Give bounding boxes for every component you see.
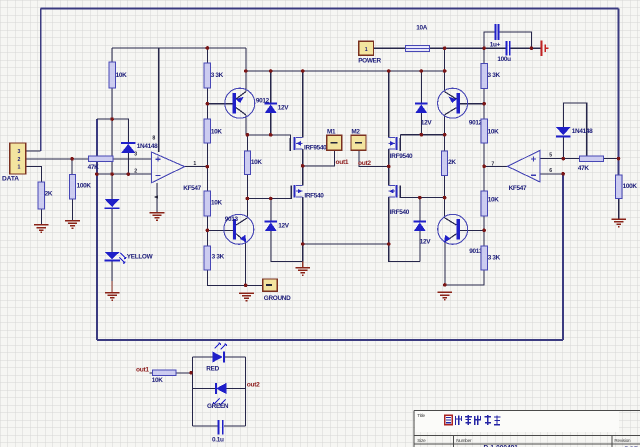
svg-text:12V: 12V [421,120,433,127]
wire gate rail lower right riser [399,186,401,198]
wire diode D7 bottom lead [562,137,564,158]
wire 33K Q3 bottom to gnd rail [207,270,262,285]
transistor Q2 9012 right [438,88,468,118]
wire jog node to loop [97,118,112,120]
capacitor C1 1u [495,24,500,40]
node 33K top rail1 [206,46,210,50]
capacitor C3 0.1u [218,420,224,435]
wire feedback loop left vertical [96,119,98,340]
node pin2 row diode anode [127,172,131,176]
wire gate rail lower left [247,186,291,199]
resistor R 10K chain upper [204,119,210,143]
wire 33K right top lead [483,48,485,64]
svg-text:100K: 100K [77,183,92,190]
wire 100K bottom to ground [72,199,74,221]
node zener D6 rail [418,196,422,200]
resistor R 10K chain lower [204,191,210,216]
svg-text:0.1u: 0.1u [212,437,224,444]
svg-text:POWER: POWER [358,58,381,65]
connector M2 [351,135,366,150]
ground Q4 emitter [438,292,453,300]
node FET drain bus left [301,69,305,73]
ground under 2K [34,225,49,233]
svg-text:3: 3 [134,151,137,157]
svg-text:out2: out2 [247,381,260,388]
wire zener D4 top lead [270,199,272,221]
wire left FET mid out1 node [302,149,304,185]
zener D5 12V upper right [415,102,427,113]
svg-text:10K: 10K [152,377,164,384]
transistor Q4 9013 right [438,214,468,244]
wire DATA pin2 to 47K [26,158,89,160]
svg-text:10K: 10K [488,129,500,136]
wire M2 pin to out2 node [359,150,389,166]
wire feedback loop right vertical to pin6 [562,174,564,340]
svg-text:100u: 100u [497,56,511,63]
wire 10K collector leads [246,135,248,199]
wire left FET source to gnd [302,197,304,261]
svg-text:10A: 10A [416,25,428,32]
wire zener D4 bottom to gnd corner [271,230,303,261]
wire LED block left vertical [191,357,193,426]
node Q2 base [482,102,486,106]
wire left chain 33K to 10K [206,88,208,119]
LED D9 RED [212,343,226,363]
svg-text:YELLOW: YELLOW [127,254,154,261]
wire LED yellow to ground [111,261,113,282]
svg-text:10K: 10K [211,199,223,206]
connector J1 DATA [10,143,26,174]
svg-text:GREEN: GREEN [207,403,229,410]
wire source link across [303,243,389,245]
svg-text:M1: M1 [327,128,336,135]
wire DATA pin1 to 2K [26,166,42,182]
wire left chain 10K to Q3 base node [206,216,208,246]
svg-text:12V: 12V [278,104,290,111]
wire right chain 10K to 33K [483,216,485,246]
svg-text:9013: 9013 [225,216,239,223]
ground Q3 emitter [239,293,254,301]
svg-text:47K: 47K [578,165,590,172]
svg-text:IRF540: IRF540 [390,209,410,216]
svg-text:10K: 10K [211,129,223,136]
node out1 [301,164,305,168]
node Q1 emitter bus [244,69,248,73]
resistor R 33K right bottom [481,246,487,270]
node zener D3 bus [269,69,273,73]
wire zener D5 bottom lead [420,112,422,135]
mosfet M IRF540 right [389,185,401,198]
wire right FET source down [389,197,420,261]
node source link right [387,242,391,246]
wire opamp U2 output [484,165,508,167]
svg-text:2K: 2K [448,159,456,166]
wire right FET drain from bus [388,71,390,138]
svg-text:10K: 10K [488,197,500,204]
title text CJK drawn as glyph shapes [445,415,501,425]
wire Q4 base [460,229,484,231]
wire fuse to battery [430,47,506,49]
wire opamp U1 pin8 to rail1 [158,48,160,152]
resistor R 10K collector [244,151,250,175]
svg-text:3: 3 [18,149,21,155]
wire zener D6 top lead [419,198,421,221]
svg-text:IRF540: IRF540 [304,192,324,199]
node pin2 row diode chain [110,172,114,176]
node zener D3 rail [269,133,273,137]
node diode D7 pin5 [562,157,566,161]
node loop pin2 corner [95,172,99,176]
resistor R 33K q3 [204,246,210,270]
wire opamp U2 pin6 row [540,173,563,175]
svg-text:2: 2 [18,157,21,163]
wire cap 100u right lead [511,47,541,49]
node Q3 base [206,229,210,233]
node Q4 base [482,229,486,233]
wire Q4 emitter down to ground [444,242,446,285]
wire Q1 emitter up [245,71,247,92]
wire right chain 33K to 10K [483,89,485,119]
wire zener D6 bottom lead [419,230,421,261]
wire 33K Q1 top lead [206,48,208,63]
node zener D5 rail [420,133,424,137]
wire right FET mid out2 node [388,149,390,185]
resistor R 47K right [580,156,604,162]
wire 2K leads [444,135,446,198]
zener D3 12V upper left [265,102,277,113]
svg-text:1: 1 [365,47,368,53]
wire DATA pin3 to border [26,150,41,152]
ground under LED yellow [105,293,120,301]
node Q2 emitter bus [443,69,447,73]
node source link left [301,242,305,246]
node U2 output [482,165,486,169]
svg-text:KF547: KF547 [183,185,201,192]
svg-text:1N4148: 1N4148 [137,143,158,150]
node A pullup bottom [110,117,114,121]
wire M1 pin to out1 node [303,150,335,166]
svg-text:DATA: DATA [2,176,19,183]
wire 47K right to border [604,158,619,160]
wire right gnd rail [445,270,484,285]
wire 2K bottom to ground [40,209,42,225]
ground under U1 pin4 [150,213,165,221]
zener D4 12V lower left [265,220,277,231]
svg-text:Title: Title [417,413,425,418]
node zener D5 bus [420,69,424,73]
wire 12V bus [246,70,445,72]
node loop pin6 [561,172,565,176]
LED D10 GREEN [214,383,227,405]
wire opamp U2 pin5 row [540,158,580,160]
mosfet M IRF9540 left [290,137,302,151]
pin 4 U1 mark [154,195,158,199]
wire 10K pullup top lead [111,48,113,62]
wire 10K pullup bottom chain [111,88,113,199]
svg-text:47K: 47K [88,164,100,171]
node gnd right emitter [443,283,447,287]
op-amp U1 KF547 [151,152,184,183]
node out2 [387,165,391,169]
node border 47K [617,157,621,161]
svg-text:Revision: Revision [614,438,631,443]
wire right chain 10K to 10K [483,143,485,191]
resistor R 100K right [616,175,622,199]
wire gnd stem left bridge [302,261,304,267]
wire LED yellow ground stem red [111,281,113,292]
svg-text:IRF9540: IRF9540 [390,153,413,160]
resistor R 10K right upper [481,119,487,143]
wire 100K right bottom to ground [618,199,620,219]
node out1 LED block [189,371,193,375]
wire top border net DATA3 [41,7,619,9]
resistor R 10K pullup [109,62,115,88]
mosfet M IRF9540 right [389,137,401,151]
svg-text:3 3K: 3 3K [488,72,501,79]
wire rail1 12V top left [112,47,246,49]
node zener D4 rail [269,197,273,201]
wire Q2 base [460,103,484,105]
resistor R 100K left [69,174,75,199]
wire POWER to fuse [374,47,406,49]
resistor R 10K right lower [481,191,487,216]
wire zener D3 bottom lead [270,112,272,135]
svg-text:5: 5 [549,153,552,159]
svg-text:3 3K: 3 3K [488,254,501,261]
ground under 100K [65,221,80,229]
resistor R 33K right top [481,64,487,89]
node U1 output [206,165,210,169]
capacitor C2 100u [506,41,511,56]
wire fuse node down to bus [444,48,446,71]
svg-text:3 3K: 3 3K [211,72,224,79]
wire Q2 collector down [444,115,446,135]
wire left border from DATA pin3 [40,8,42,151]
wire Q1 collector down [245,115,247,135]
wire 100K top tap [71,159,73,175]
wire rail1 corner down to bus [245,48,247,71]
svg-text:1u+: 1u+ [490,42,501,49]
svg-text:Number: Number [456,438,472,443]
svg-text:8: 8 [152,135,155,141]
wire opamp U1 pin2 row [97,173,151,175]
zener D6 12V lower right [414,220,426,231]
wire cap 1u branch [484,32,531,48]
resistor R 10K out1 [152,370,175,376]
wire opamp U1 pin4 to ground [156,183,158,213]
svg-text:GROUND: GROUND [264,295,291,302]
node pin2 100K tap [70,157,74,161]
wire node A 47K to opamp pin3 [113,158,151,160]
LED D8 YELLOW [104,252,126,263]
svg-text:10K: 10K [251,159,263,166]
wire cap 0.1u row [192,425,245,427]
node cap 1u right [530,46,534,50]
diode D7 1N4148 right [556,127,570,137]
svg-text:2: 2 [134,168,137,174]
wire Q3 collector up [246,199,248,218]
node FET drain bus right [387,69,391,73]
diode D2 1N4148 clamp up [121,142,136,153]
wire gate rail upper right drop [399,135,401,151]
svg-text:12V: 12V [278,222,290,229]
wire gate rail upper right [400,134,444,136]
wire left FET drain from bus [302,71,304,138]
resistor R 2K [38,182,44,209]
wire right border down to 47K node [618,8,620,175]
resistor R 33K q1 [204,63,210,88]
wire Q4 collector up [444,198,446,218]
battery BT1 power red [540,41,548,56]
diode D2b 1N4148 down [105,199,120,209]
svg-text:RED: RED [206,365,219,372]
svg-text:10K: 10K [116,72,128,79]
connector M1 [327,135,342,150]
wire opamp U1 output [185,166,208,168]
mosfet M IRF540 left [291,185,303,198]
transistor Q1 9012 [225,88,255,118]
node 33K right rail [482,46,486,50]
svg-text:6: 6 [549,168,552,174]
wire zener D5 top lead [420,71,422,103]
wire feedback loop bottom [97,339,563,341]
resistor R 2K right [442,151,448,176]
wire Q2 emitter up [444,71,446,92]
svg-text:out1: out1 [136,366,149,373]
wire Q3 emitter down [245,242,247,286]
svg-text:IRF9540: IRF9540 [304,145,327,152]
resistor R 47K left [89,156,114,162]
svg-text:12V: 12V [420,238,432,245]
wire clamp diode branch [112,119,128,143]
node gate rail upper left [246,133,250,137]
wire out1 label stub [150,372,153,374]
svg-text:M2: M2 [351,128,360,135]
svg-text:7: 7 [491,161,494,167]
connector J3 GROUND [263,279,278,291]
node gate rail lower right [443,196,447,200]
svg-text:1: 1 [193,161,196,167]
svg-text:KF547: KF547 [509,185,527,192]
svg-text:out2: out2 [358,160,371,167]
wire LED block right vertical [244,357,246,426]
transistor Q3 9013 [224,214,254,244]
ground left FET source [295,268,310,276]
wire out1 resistor to LED block [176,372,193,374]
node gnd left emitter [244,284,248,288]
svg-text:100K: 100K [623,183,638,190]
op-amp U2 KF547 right [508,150,540,182]
svg-text:3 3K: 3 3K [212,254,225,261]
title block [414,410,640,447]
svg-text:1N4148: 1N4148 [572,128,593,135]
wire clamp diode anode to pin2 row [127,153,129,174]
wire LED green row [192,388,245,390]
connector J2 POWER [359,41,374,55]
node Q1 base [206,102,210,106]
node gate rail lower left [246,197,250,201]
wire gate rail lower right [400,197,444,199]
fuse F1 10A [406,46,430,52]
svg-text:out1: out1 [336,159,349,166]
svg-text:2K: 2K [45,190,53,197]
ground under 100K right [611,219,626,227]
wire diode D2 to LED yellow [111,209,113,252]
wire left chain 10K to 10K [206,143,208,191]
svg-text:Size: Size [417,438,426,443]
wire LED red row [192,356,245,358]
wire gate rail upper left [246,135,290,151]
node gate rail upper right [443,133,447,137]
wire diode D7 top loop [563,103,586,156]
wire zener D3 top lead [270,71,272,103]
wire Q3 base [207,229,232,231]
svg-text:1: 1 [18,165,21,171]
node fuse rail [443,46,447,50]
wire Q1 base [207,103,232,105]
